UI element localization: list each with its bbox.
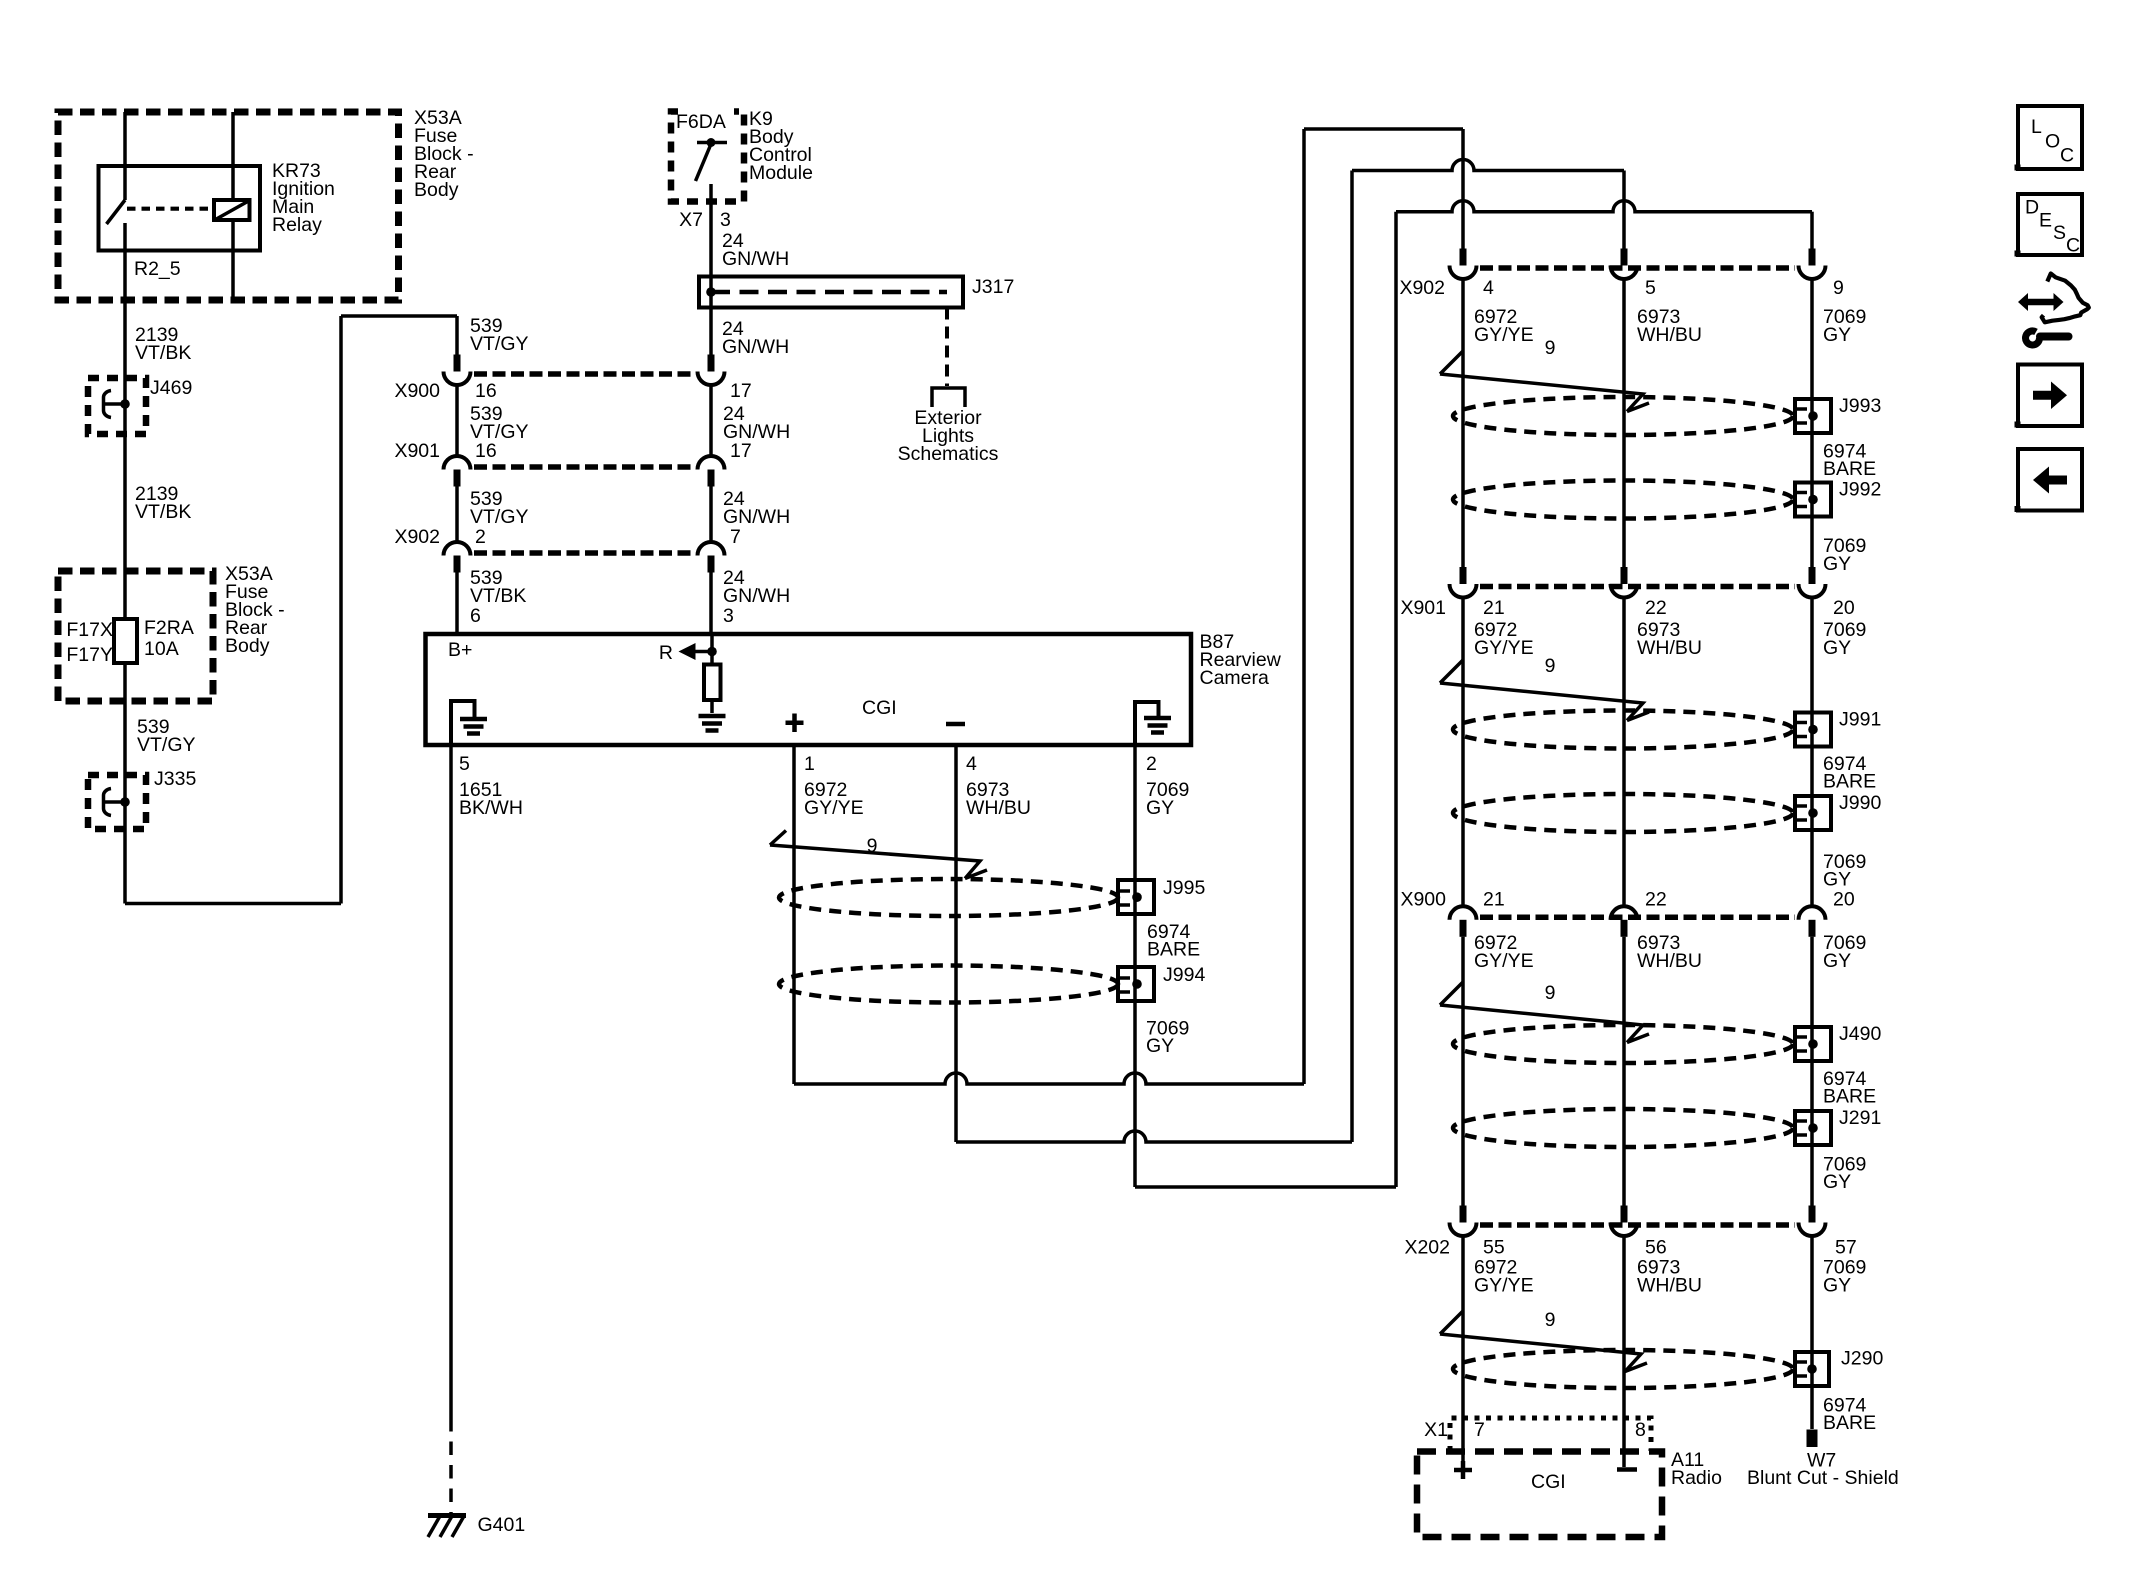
ground bars pin2 <box>1144 716 1171 721</box>
connector X902 left: pin 2 male tick <box>454 556 461 573</box>
svg-text:2: 2 <box>1146 753 1157 775</box>
svg-text:F2RA: F2RA <box>144 617 194 639</box>
svg-text:F17Y: F17Y <box>66 644 113 666</box>
F6DA switch blade <box>696 144 712 181</box>
svg-text:17: 17 <box>730 440 752 462</box>
wire col A upper <box>1461 129 1465 249</box>
svg-text:GN/WH: GN/WH <box>722 248 789 270</box>
R arrowhead <box>679 643 696 660</box>
wire riser v1 <box>1302 129 1306 1084</box>
wire top run v2 to X902 col B (hop over colA riser) <box>1352 160 1624 171</box>
twisted pair lens 1 (camera) <box>779 879 1118 916</box>
body control module K9 dashed box F6DA <box>671 112 744 202</box>
svg-text:9: 9 <box>1545 337 1556 359</box>
wire col A X901-X900 <box>1461 598 1465 907</box>
svg-text:GN/WH: GN/WH <box>723 506 790 528</box>
wire col C upper <box>1810 212 1814 249</box>
svg-text:X202: X202 <box>1404 1237 1450 1259</box>
svg-text:O: O <box>2045 131 2060 153</box>
svg-text:GY/YE: GY/YE <box>1474 950 1534 972</box>
connector X900 left: pin 17 female cup <box>698 372 725 386</box>
svg-text:B+: B+ <box>448 639 472 661</box>
connector X900 left: pin 17 male tick <box>708 355 715 372</box>
svg-text:17: 17 <box>730 380 752 402</box>
junction dot J469 <box>120 399 130 409</box>
svg-text:BARE: BARE <box>1823 1412 1876 1434</box>
relay coil box <box>214 200 250 220</box>
wire col B X902-X901 <box>1622 279 1626 567</box>
svg-text:Camera: Camera <box>1200 667 1270 689</box>
svg-text:WH/BU: WH/BU <box>1637 1275 1702 1297</box>
connector J469 dashed box <box>88 378 146 434</box>
svg-text:X902: X902 <box>394 526 440 548</box>
resistor (R termination) <box>704 665 721 701</box>
LOC box <box>2018 106 2082 169</box>
connector X901 right dashed row <box>1480 584 1795 590</box>
CGI minus sign <box>946 722 965 727</box>
connector X901 right: cups <box>1450 584 1477 598</box>
svg-text:Blunt Cut - Shield: Blunt Cut - Shield <box>1747 1467 1899 1489</box>
svg-text:VT/GY: VT/GY <box>137 734 196 756</box>
svg-text:Module: Module <box>749 162 813 184</box>
svg-text:C: C <box>2060 145 2074 167</box>
twisted pair lens A2 <box>1453 481 1793 519</box>
twisted pair lens B1 <box>1453 711 1793 749</box>
svg-text:6: 6 <box>470 605 481 627</box>
svg-text:2: 2 <box>475 526 486 548</box>
internal ground pin 5 hook <box>451 701 475 745</box>
F6DA switch bar <box>697 141 727 145</box>
wire 539 VT/GY X901-X902 <box>455 487 459 543</box>
wire CGI- 6973 WH/BU down <box>954 745 958 1142</box>
junction dot J317 <box>706 287 716 297</box>
shield junction J990 <box>1795 796 1831 830</box>
R arrow line <box>694 650 712 654</box>
svg-text:J290: J290 <box>1841 1348 1883 1370</box>
connector X901 left: pin 16 male tick <box>454 470 461 487</box>
camera B87 box <box>426 634 1192 745</box>
double arrow icon <box>2026 299 2056 306</box>
ground bars resistor <box>699 714 726 719</box>
relay coil diagonal <box>216 201 249 220</box>
svg-text:L: L <box>2031 116 2042 138</box>
wire 539 into X900 <box>455 316 459 355</box>
svg-text:21: 21 <box>1483 889 1505 911</box>
wire run shield bottom <box>1135 1185 1396 1189</box>
svg-text:GY: GY <box>1823 1171 1851 1193</box>
wire 1651 dashed tail <box>449 1418 453 1513</box>
wire riser v2 <box>1350 171 1354 1143</box>
svg-text:GY: GY <box>1146 1035 1174 1057</box>
connector X901 left: pin 16 female cup (inverted) <box>444 456 471 470</box>
connector J335 dashed box <box>88 775 146 829</box>
svg-text:VT/BK: VT/BK <box>135 342 191 364</box>
svg-text:F6DA: F6DA <box>676 111 726 133</box>
wire CGI+ 6972 GY/YE down <box>792 745 796 1084</box>
wire 2139 VT/BK lower <box>123 404 127 619</box>
twisted pair lens C1 <box>1453 1025 1793 1063</box>
svg-text:X900: X900 <box>1400 889 1446 911</box>
wire through J317 <box>709 277 713 308</box>
connector X902 right: ticks <box>1460 249 1467 266</box>
connector J335 terminal hook <box>103 789 111 816</box>
svg-text:GY: GY <box>1146 797 1174 819</box>
connector X902 right: cups <box>1450 266 1477 280</box>
svg-text:GN/WH: GN/WH <box>722 336 789 358</box>
svg-text:E: E <box>2039 210 2052 232</box>
svg-text:VT/GY: VT/GY <box>470 506 529 528</box>
svg-text:21: 21 <box>1483 597 1505 619</box>
wire col C X202-J290 <box>1810 1236 1814 1429</box>
connector X900 left: pin 16 female cup <box>444 372 471 386</box>
svg-text:Relay: Relay <box>272 214 322 236</box>
svg-text:R: R <box>659 642 673 664</box>
svg-text:D: D <box>2025 197 2039 219</box>
shield junction J290 <box>1795 1352 1829 1386</box>
wire relay coil top <box>231 112 235 200</box>
svg-text:GY/YE: GY/YE <box>1474 324 1534 346</box>
connector X902 right dashed row <box>1480 265 1795 271</box>
relay actuator dashed link <box>127 207 211 211</box>
svg-text:BARE: BARE <box>1823 1086 1876 1108</box>
svg-text:57: 57 <box>1835 1237 1857 1259</box>
R input wire <box>710 634 714 665</box>
wire col A X202-radio <box>1461 1236 1465 1462</box>
R node dot <box>707 647 717 657</box>
wire relay switch feed (top) <box>123 112 127 200</box>
shield junction J992 <box>1795 483 1831 517</box>
wire 2139 VT/BK upper <box>123 223 127 404</box>
internal ground pin 2 hook <box>1135 702 1159 745</box>
twisted pair lens A1 <box>1453 397 1793 435</box>
svg-text:BARE: BARE <box>1823 771 1876 793</box>
wire 24 GN/WH X900-X901 <box>709 385 713 456</box>
twisted pair lens C2 <box>1453 1109 1793 1147</box>
svg-text:20: 20 <box>1833 889 1855 911</box>
wire run WH/BU bottom with hop <box>956 1131 1352 1142</box>
svg-text:BARE: BARE <box>1823 458 1876 480</box>
wire col C X901-X900 <box>1810 598 1814 907</box>
dashed branch to exterior lights <box>945 308 949 387</box>
connector X901 left: pin 17 male tick <box>708 470 715 487</box>
svg-text:J994: J994 <box>1163 964 1205 986</box>
svg-text:X901: X901 <box>394 440 440 462</box>
svg-text:GY/YE: GY/YE <box>1474 637 1534 659</box>
wire 539 VT/BK to camera B+ <box>455 573 459 635</box>
svg-text:J490: J490 <box>1839 1023 1881 1045</box>
svg-text:GY: GY <box>1823 637 1851 659</box>
connector X901 left dashed row <box>474 464 694 470</box>
wire riser v3 <box>1394 212 1398 1187</box>
svg-text:CGI: CGI <box>1531 1471 1566 1493</box>
J995 stubs <box>1120 889 1130 893</box>
svg-text:J995: J995 <box>1163 877 1205 899</box>
svg-text:J335: J335 <box>154 768 196 790</box>
connector X900 right: cups (inverted) <box>1450 906 1477 920</box>
wrench icon <box>2026 331 2040 345</box>
svg-text:10A: 10A <box>144 638 179 660</box>
svg-text:4: 4 <box>966 753 977 775</box>
shield junction J994 box <box>1118 967 1154 1001</box>
blunt cut tick W7 <box>1807 1430 1818 1448</box>
svg-text:Schematics: Schematics <box>898 443 999 465</box>
wire col B upper <box>1622 171 1626 249</box>
wire 24 GN/WH to camera R <box>709 573 713 635</box>
svg-text:J991: J991 <box>1839 709 1881 731</box>
svg-text:J469: J469 <box>150 377 192 399</box>
svg-text:GY/YE: GY/YE <box>1474 1275 1534 1297</box>
connector X202 dashed row <box>1480 1222 1795 1228</box>
svg-text:56: 56 <box>1645 1237 1667 1259</box>
connector J469 terminal hook <box>103 391 111 418</box>
shield junction J490 <box>1795 1027 1831 1061</box>
wire 539 VT/GY X900-X901 <box>455 385 459 456</box>
svg-text:BARE: BARE <box>1147 939 1200 961</box>
wire bottom run to riser <box>125 902 341 906</box>
twisted pair lens B2 <box>1453 794 1793 832</box>
svg-text:F17X: F17X <box>66 619 113 641</box>
wire col B X901-X900 <box>1622 598 1626 907</box>
shield junction J995 box <box>1118 880 1154 914</box>
J995 dot <box>1132 892 1142 902</box>
wire riser x341 <box>339 316 343 904</box>
svg-text:GY/YE: GY/YE <box>804 797 864 819</box>
wire top run v3 to X902 col C (hops) <box>1396 201 1812 212</box>
wire 539 VT/GY below fuse <box>123 663 127 802</box>
svg-text:WH/BU: WH/BU <box>1637 950 1702 972</box>
wire top run v1 to X902 col A <box>1304 127 1463 131</box>
svg-text:J291: J291 <box>1839 1107 1881 1129</box>
svg-text:9: 9 <box>1545 1309 1556 1331</box>
svg-text:Body: Body <box>225 635 270 657</box>
DESC box <box>2018 194 2082 255</box>
fuse F2RA rectangle <box>114 619 137 663</box>
connector X202: cups <box>1450 1223 1477 1237</box>
svg-text:VT/GY: VT/GY <box>470 333 529 355</box>
wire col B X900-X202 <box>1622 937 1626 1206</box>
wire col C X902-X901 <box>1810 279 1814 567</box>
wire relay coil bottom <box>231 220 235 300</box>
wire col B X202-radio <box>1622 1236 1626 1467</box>
svg-text:9: 9 <box>1833 277 1844 299</box>
svg-text:1: 1 <box>804 753 815 775</box>
forward arrow box <box>2018 365 2082 427</box>
svg-text:Body: Body <box>414 179 459 201</box>
shield junction J291 <box>1795 1111 1831 1145</box>
wire top run to X900 branch <box>341 314 457 318</box>
vehicle outline icon <box>2042 274 2089 323</box>
svg-text:22: 22 <box>1645 889 1667 911</box>
exterior lights bracket <box>932 388 965 407</box>
svg-text:J990: J990 <box>1839 792 1881 814</box>
svg-text:GY: GY <box>1823 950 1851 972</box>
svg-text:16: 16 <box>475 440 497 462</box>
connector X902 left: pin 7 female cup (inverted) <box>698 542 725 556</box>
wire 24 GN/WH J317 to X900 <box>709 308 713 355</box>
svg-text:7: 7 <box>730 526 741 548</box>
svg-text:9: 9 <box>1545 655 1556 677</box>
svg-text:X7: X7 <box>679 209 703 231</box>
svg-text:7: 7 <box>1474 1419 1485 1441</box>
svg-text:8: 8 <box>1635 1419 1646 1441</box>
back arrow box <box>2018 449 2082 511</box>
radio CGI minus <box>1617 1467 1637 1472</box>
svg-text:GN/WH: GN/WH <box>723 585 790 607</box>
wire col C X900-X202 <box>1810 937 1814 1206</box>
connector X900 left: pin 16 male tick <box>454 355 461 372</box>
svg-text:WH/BU: WH/BU <box>1637 637 1702 659</box>
svg-text:S: S <box>2053 222 2066 244</box>
splice J317 box <box>699 277 963 308</box>
svg-text:9: 9 <box>1545 982 1556 1004</box>
connector X901 right: ticks <box>1460 567 1467 584</box>
J994 dot <box>1132 979 1142 989</box>
radio A11 dashed box <box>1417 1452 1662 1538</box>
svg-text:X1: X1 <box>1424 1419 1448 1441</box>
wire run GY/YE bottom with hops <box>794 1073 1304 1084</box>
wire shield 7069 GY down <box>1133 745 1137 1187</box>
relay KR73 box <box>99 166 261 251</box>
svg-text:5: 5 <box>459 753 470 775</box>
svg-text:3: 3 <box>723 605 734 627</box>
svg-text:VT/BK: VT/BK <box>135 501 191 523</box>
J994 stubs <box>1120 976 1130 980</box>
svg-text:X902: X902 <box>1399 277 1445 299</box>
svg-text:4: 4 <box>1483 277 1494 299</box>
svg-text:J992: J992 <box>1839 479 1881 501</box>
svg-text:BK/WH: BK/WH <box>459 797 523 819</box>
twisted pair lens 2 (camera) <box>779 966 1118 1003</box>
ground bars pin5 <box>460 717 487 722</box>
svg-text:16: 16 <box>475 380 497 402</box>
label F6DA <box>678 104 734 121</box>
connector X901 left: pin 17 female cup (inverted) <box>698 456 725 470</box>
svg-text:J317: J317 <box>972 276 1014 298</box>
svg-text:55: 55 <box>1483 1237 1505 1259</box>
connector X902 left: pin 7 male tick <box>708 556 715 573</box>
wire 24 GN/WH X901-X902 <box>709 487 713 543</box>
wire resistor to ground <box>710 700 714 713</box>
shield junction J993 <box>1795 399 1831 433</box>
svg-text:X901: X901 <box>1400 597 1446 619</box>
svg-text:C: C <box>2066 235 2080 257</box>
svg-text:20: 20 <box>1833 597 1855 619</box>
wire col A X900-X202 <box>1461 937 1465 1206</box>
svg-text:J993: J993 <box>1839 395 1881 417</box>
svg-text:Radio: Radio <box>1671 1467 1722 1489</box>
F6DA switch dot <box>707 138 716 147</box>
twisted pair lens D <box>1453 1350 1793 1388</box>
svg-text:5: 5 <box>1645 277 1656 299</box>
wire 1651 BK/WH to G401 <box>449 745 453 1418</box>
svg-text:X900: X900 <box>394 380 440 402</box>
junction dot J335 <box>120 797 130 807</box>
fuse block X53A (lower) dashed box <box>58 571 213 701</box>
wire down from J335 <box>123 802 127 904</box>
svg-text:GY: GY <box>1823 553 1851 575</box>
svg-text:GY: GY <box>1823 1275 1851 1297</box>
svg-text:CGI: CGI <box>862 697 897 719</box>
svg-text:WH/BU: WH/BU <box>966 797 1031 819</box>
svg-text:R2_5: R2_5 <box>134 258 181 280</box>
connector X902 left: pin 2 female cup (inverted) <box>444 542 471 556</box>
ground G401 symbol <box>428 1513 466 1518</box>
svg-text:GY: GY <box>1823 324 1851 346</box>
connector X902 left dashed row <box>474 550 694 556</box>
svg-text:3: 3 <box>720 209 731 231</box>
radio X1 dotted connector box <box>1450 1418 1651 1451</box>
wire BCM output <box>709 184 713 277</box>
splice J317 dashed bus <box>711 290 947 295</box>
svg-text:WH/BU: WH/BU <box>1637 324 1702 346</box>
relay switch blade <box>107 200 126 224</box>
connector X202: ticks <box>1460 1206 1467 1223</box>
fuse block X53A (top) dashed box <box>58 112 399 300</box>
shield junction J991 <box>1795 713 1831 747</box>
svg-text:GY: GY <box>1823 869 1851 891</box>
connector X900 right dashed row <box>1480 915 1795 921</box>
connector X900 left dashed row <box>474 371 694 377</box>
svg-text:22: 22 <box>1645 597 1667 619</box>
svg-text:G401: G401 <box>478 1514 526 1536</box>
CGI plus sign <box>786 720 804 725</box>
svg-text:VT/BK: VT/BK <box>470 585 526 607</box>
radio CGI plus <box>1454 1468 1472 1473</box>
connector X900 right: ticks <box>1460 920 1467 937</box>
wire col A X902-X901 <box>1461 279 1465 567</box>
